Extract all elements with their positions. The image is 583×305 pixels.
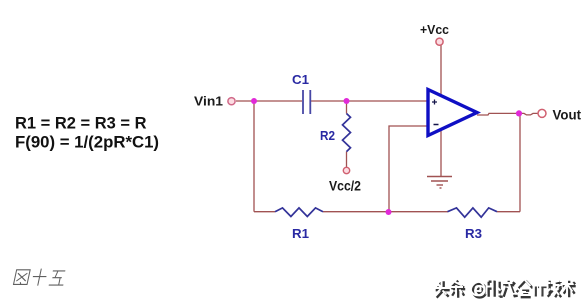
capacitor C1 (303, 90, 310, 114)
wire left branch down from Vin1 node (253, 101, 255, 212)
svg-text:+Vcc: +Vcc (420, 22, 449, 37)
svg-text:Vcc/2: Vcc/2 (329, 178, 361, 194)
svg-text:R3: R3 (465, 226, 482, 241)
ground (427, 177, 452, 189)
watermark 头条 @卧龙会IT技术 (434, 279, 576, 301)
svg-text:R1: R1 (292, 226, 309, 241)
junction at R2 top node (344, 98, 350, 104)
wire +Vcc supply down to op-amp (440, 45, 442, 97)
junction at Vin1 node (251, 98, 257, 104)
figure caption 图十五 (13, 269, 67, 286)
terminal Vcc/2 (343, 167, 349, 173)
wire output right vertical down (519, 114, 521, 212)
svg-text:R2: R2 (320, 128, 335, 143)
junction at feedback node (386, 209, 392, 215)
wire R2 bottom lead (346, 152, 348, 167)
wire C1 to op-amp + input (311, 100, 428, 102)
terminal Vout (538, 109, 546, 117)
wire op-amp output to Vout (477, 113, 538, 115)
resistor R1 (275, 208, 323, 217)
wire Vin1 to C1 (236, 100, 302, 102)
svg-text:Vin1: Vin1 (194, 94, 223, 109)
wire bottom between R1 and R3 (323, 211, 448, 213)
svg-text:C1: C1 (292, 72, 309, 87)
junction at output node (516, 110, 522, 116)
svg-text:IT: IT (532, 282, 545, 299)
resistor R2 (343, 114, 351, 152)
wire feedback from - input down to bottom (389, 126, 428, 211)
resistor R3 (448, 208, 498, 217)
terminal +Vcc (436, 38, 443, 45)
terminal Vin1 (228, 98, 235, 105)
wire bottom left lead to R1 (254, 211, 275, 213)
wire R2 top lead (346, 101, 348, 114)
svg-text:R1 = R2 = R3 = R: R1 = R2 = R3 = R (15, 114, 147, 133)
op-amp U1 (428, 90, 477, 136)
svg-text:F(90) = 1/(2pR*C1): F(90) = 1/(2pR*C1) (15, 133, 159, 152)
wire op-amp to ground (440, 130, 442, 176)
wire bottom right lead from R3 (497, 211, 520, 213)
svg-text:Vout: Vout (553, 108, 582, 123)
